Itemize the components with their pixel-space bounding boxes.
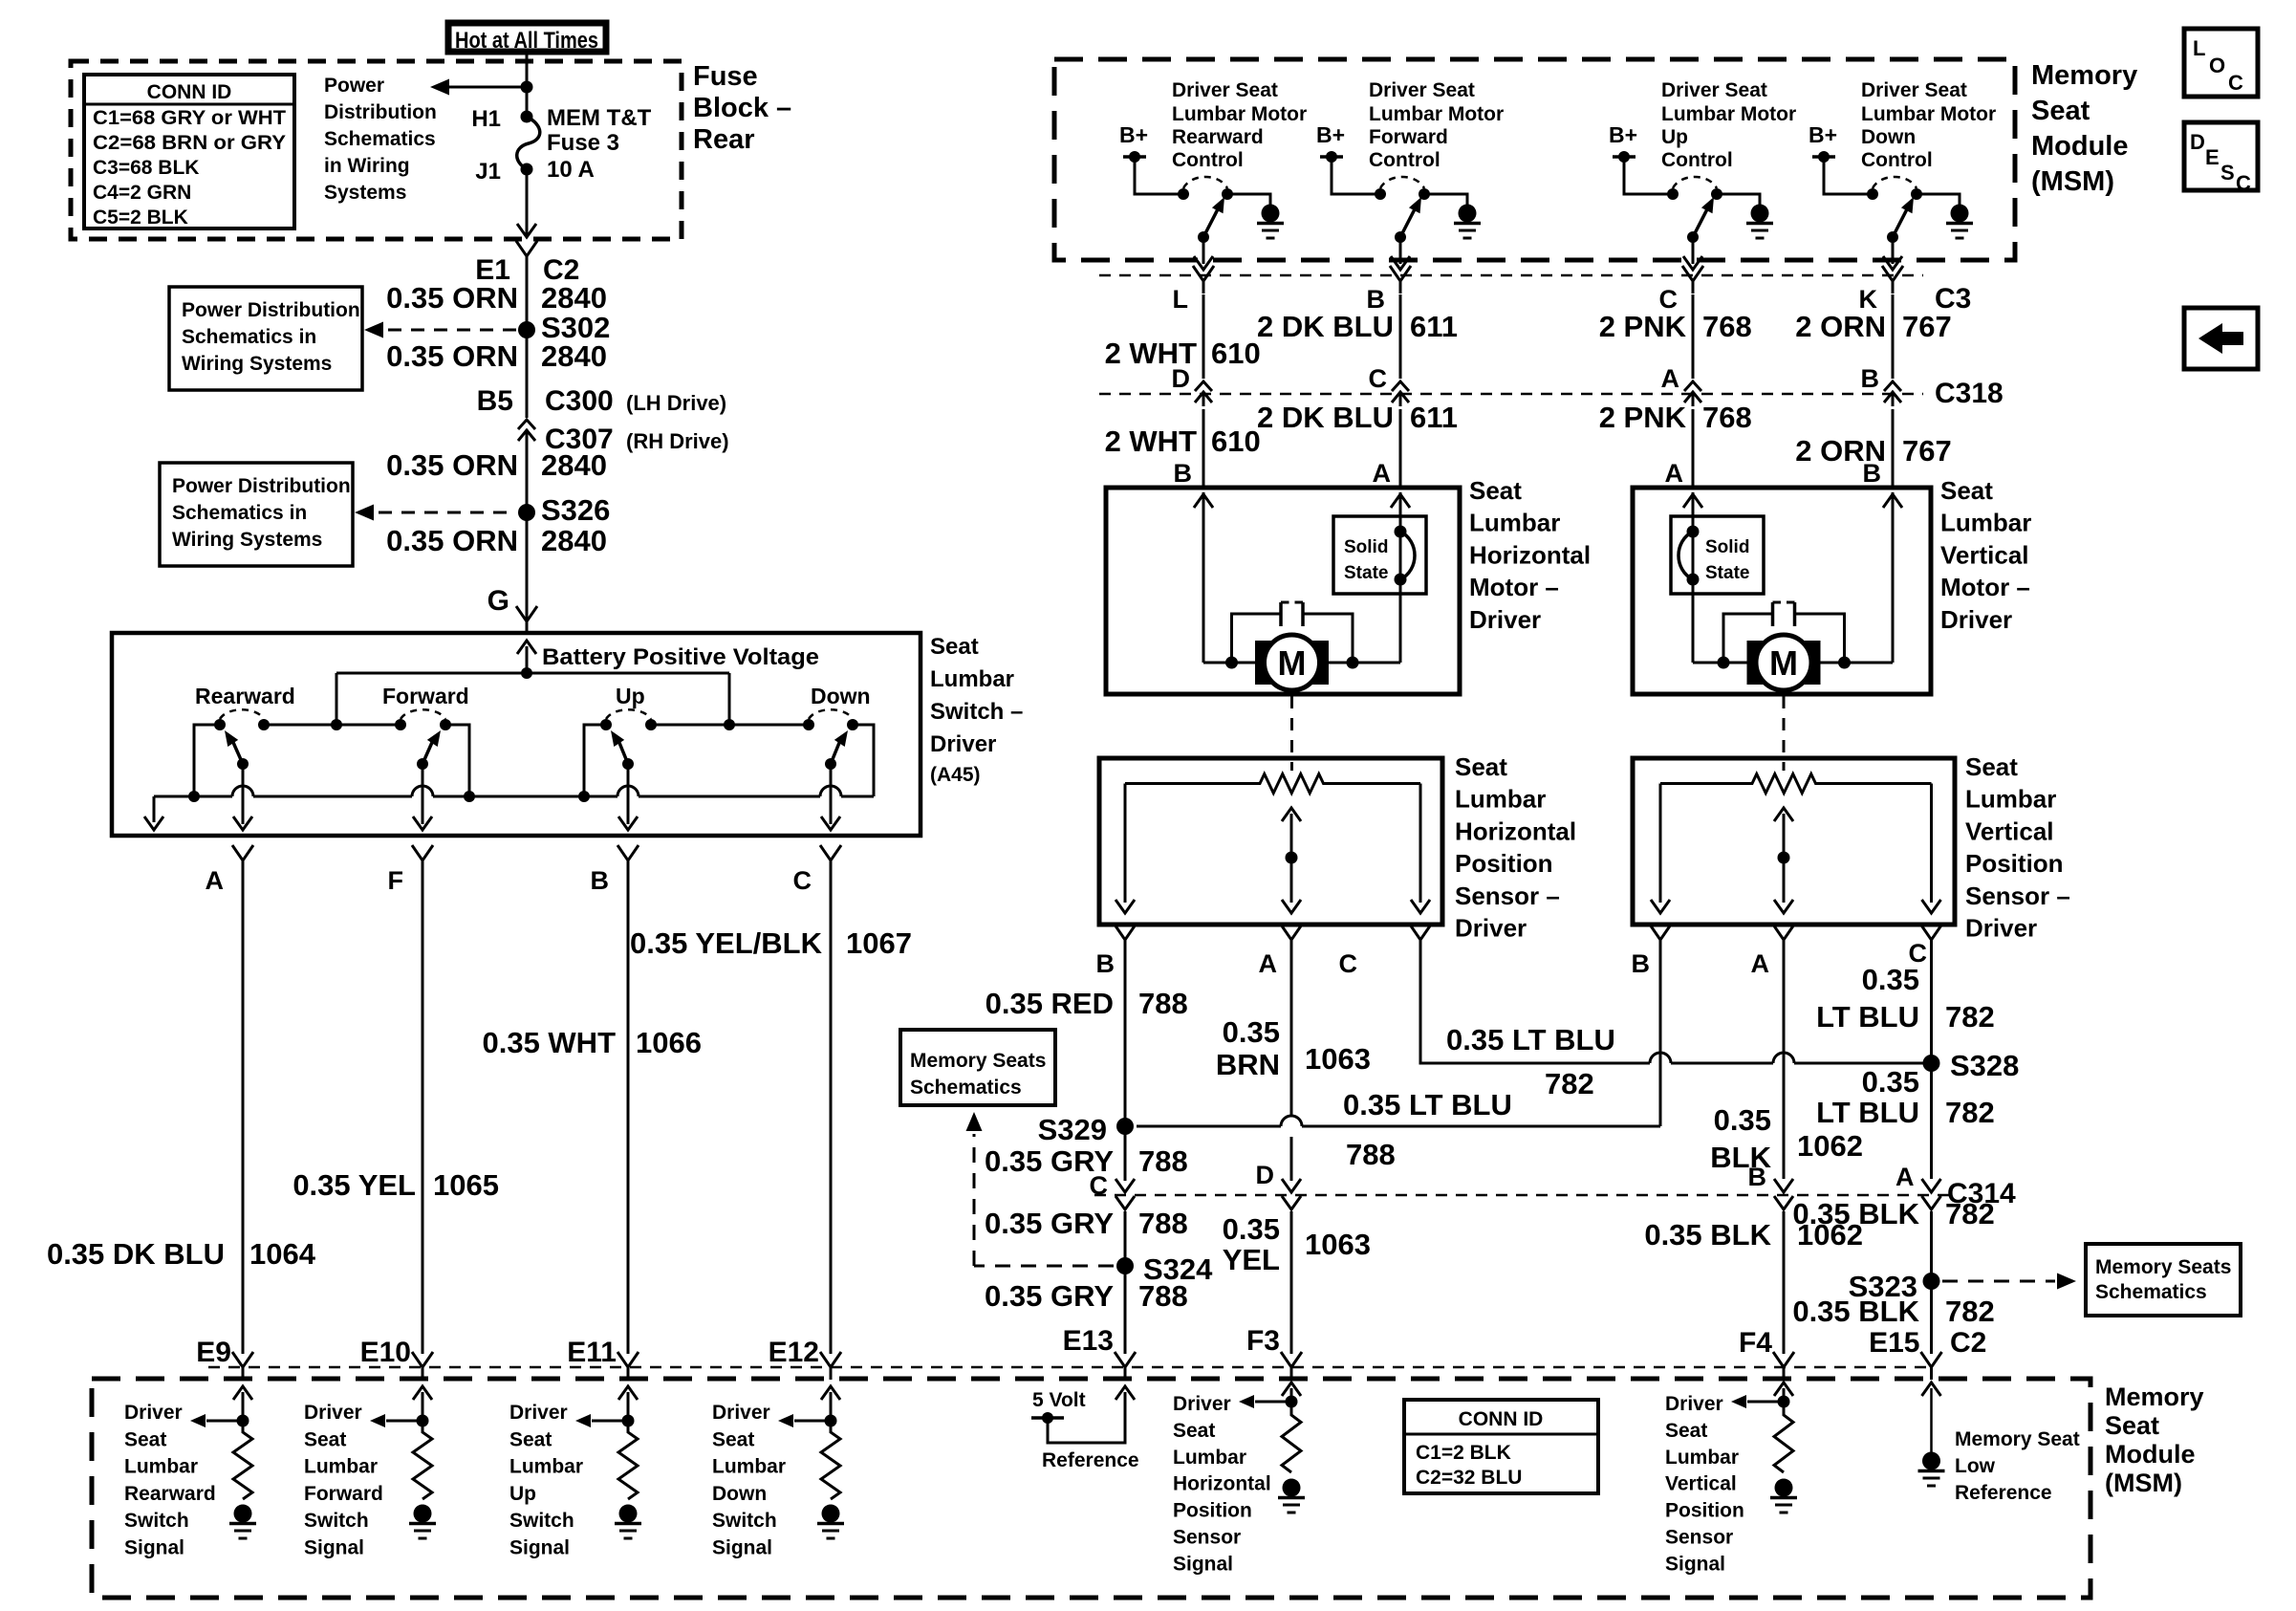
wire 0.35 BRN 1063 (horizontal sensor A) [1290, 952, 1293, 1116]
wire from Hot at All Times into fuse block [526, 54, 529, 117]
wire 0.35 LT BLU 782 (horizontal sensor C to S328) [1420, 952, 1650, 1063]
solid state switch [1671, 516, 1764, 594]
ground [1951, 205, 1969, 223]
wire 2 DK BLU 611 lower [1399, 409, 1402, 488]
svg-text:Reference: Reference [1042, 1449, 1139, 1471]
svg-text:Switch –: Switch – [930, 699, 1023, 725]
svg-text:Reference: Reference [1955, 1482, 2052, 1504]
svg-text:Solid: Solid [1705, 537, 1749, 557]
wire Forward right contact to bus [445, 725, 469, 796]
svg-text:D: D [1172, 364, 1191, 393]
svg-text:A: A [1661, 364, 1680, 393]
switch output connectors A F B C [232, 845, 253, 873]
Hot at All Times label box [448, 23, 606, 52]
svg-text:Lumbar Motor: Lumbar Motor [1661, 103, 1796, 125]
fuse F3 MEM T&T 10A [521, 111, 533, 123]
svg-text:A: A [1751, 949, 1770, 978]
svg-text:Position: Position [1965, 849, 2064, 878]
svg-text:(MSM): (MSM) [2105, 1469, 2182, 1497]
svg-text:C5=2 BLK: C5=2 BLK [93, 207, 188, 229]
svg-text:Seat: Seat [1469, 476, 1522, 505]
svg-text:Driver: Driver [1455, 914, 1527, 943]
svg-text:A: A [1259, 949, 1278, 978]
motor M [1255, 641, 1271, 685]
pot end wire right [1930, 784, 1933, 903]
pin wire left [1202, 492, 1205, 663]
svg-text:Lumbar: Lumbar [124, 1456, 198, 1478]
svg-text:Systems: Systems [324, 182, 406, 204]
connector C314 line [1094, 1194, 1950, 1197]
relay wiper [1395, 231, 1406, 243]
solid state switch [1333, 516, 1426, 594]
svg-text:State: State [1705, 563, 1749, 583]
wire 0.35 BLK 1062 (C314 to F4) [1783, 1211, 1786, 1354]
wire B+ to switch contact [1624, 157, 1673, 194]
svg-text:0.35 RED: 0.35 RED [986, 987, 1114, 1020]
svg-text:Seat: Seat [930, 634, 979, 660]
dashed arrow to power distribution schematics [388, 329, 516, 332]
svg-text:Hot at All Times: Hot at All Times [455, 28, 598, 54]
svg-text:Motor –: Motor – [1469, 573, 1559, 601]
svg-text:Horizontal: Horizontal [1469, 540, 1591, 569]
svg-text:Driver: Driver [124, 1402, 183, 1424]
svg-text:Control: Control [1172, 149, 1244, 171]
svg-text:LT BLU: LT BLU [1816, 1096, 1919, 1129]
connector C314 pin D [1282, 1179, 1301, 1209]
svg-text:0.35: 0.35 [1862, 1065, 1919, 1099]
svg-text:Switch: Switch [304, 1510, 369, 1532]
pin wire right [1892, 492, 1895, 663]
svg-text:Driver: Driver [1965, 914, 2037, 943]
connector C3 pin C [1682, 266, 1703, 294]
dashed link S324 to Memory Seats Schematics [974, 1265, 1114, 1268]
svg-text:Fuse: Fuse [693, 61, 758, 92]
svg-text:Down: Down [1861, 126, 1916, 148]
wire B+ to switch contact [1824, 157, 1873, 194]
connector C318 pin A [1684, 381, 1701, 406]
svg-text:B: B [1863, 459, 1882, 488]
svg-text:C2: C2 [1950, 1327, 1986, 1359]
Memory Seats Schematics box left [900, 1030, 1055, 1105]
sensor signal input with pull resistor [1783, 1388, 1786, 1402]
svg-text:C300: C300 [545, 385, 614, 417]
svg-text:788: 788 [1138, 1144, 1188, 1178]
svg-text:0.35 BLK: 0.35 BLK [1644, 1218, 1771, 1252]
connector C314 pin C [1116, 1179, 1135, 1209]
svg-text:0.35 BLK: 0.35 BLK [1792, 1197, 1919, 1230]
svg-text:Module: Module [2105, 1440, 2196, 1469]
svg-text:C318: C318 [1935, 378, 2004, 409]
svg-text:O: O [2209, 54, 2225, 77]
svg-text:YEL: YEL [1223, 1243, 1280, 1276]
svg-text:2 DK BLU: 2 DK BLU [1257, 401, 1394, 434]
ground [1262, 205, 1280, 223]
svg-text:788: 788 [1138, 1279, 1188, 1313]
svg-text:M: M [1769, 643, 1798, 683]
contact wire Up-Down [651, 724, 809, 727]
svg-text:788: 788 [1346, 1138, 1396, 1171]
battery bus [336, 672, 729, 675]
svg-text:Seat: Seat [1940, 476, 1993, 505]
svg-text:Sensor: Sensor [1173, 1527, 1241, 1549]
Seat Lumbar Switch - Driver (A45) box [112, 633, 921, 836]
Power Distribution Schematics box 1 [169, 287, 362, 390]
dashed arrow to power distribution schematics 2 [379, 512, 516, 514]
motor supply wires [1693, 662, 1747, 664]
svg-text:2840: 2840 [541, 339, 607, 373]
svg-text:E11: E11 [567, 1337, 617, 1368]
svg-text:Motor –: Motor – [1940, 573, 2030, 601]
svg-text:Forward: Forward [304, 1483, 383, 1505]
wire Rearward left contact to bus [194, 725, 220, 796]
pin wire right [1399, 492, 1402, 663]
svg-text:1064: 1064 [249, 1237, 316, 1271]
svg-text:Seat: Seat [304, 1428, 346, 1450]
svg-text:0.35 ORN: 0.35 ORN [386, 339, 518, 373]
svg-text:M: M [1278, 643, 1307, 683]
seat lumbar vertical motor - driver box [1633, 488, 1931, 694]
splice S326 [518, 504, 535, 521]
svg-text:Lumbar: Lumbar [509, 1456, 583, 1478]
connector C3 pin L [1193, 266, 1214, 294]
wire B+ to switch contact [1332, 157, 1380, 194]
svg-text:(A45): (A45) [930, 764, 981, 786]
svg-text:E15: E15 [1869, 1327, 1919, 1359]
wire wiper to MSM pin [1399, 237, 1402, 264]
wire 2 WHT 610 lower [1202, 409, 1205, 488]
svg-text:788: 788 [1138, 1207, 1188, 1240]
svg-text:Signal: Signal [124, 1537, 184, 1559]
motor supply wires [1203, 662, 1255, 664]
svg-text:Fuse 3: Fuse 3 [547, 130, 619, 156]
back arrow icon box [2184, 308, 2258, 369]
svg-text:1066: 1066 [636, 1026, 702, 1059]
svg-text:Driver: Driver [304, 1402, 362, 1424]
svg-text:MEM T&T: MEM T&T [547, 105, 652, 131]
svg-text:Position: Position [1173, 1500, 1252, 1522]
svg-text:S328: S328 [1950, 1049, 2019, 1082]
svg-text:B: B [1748, 1163, 1767, 1191]
svg-text:A: A [1373, 459, 1392, 488]
svg-text:768: 768 [1702, 401, 1752, 434]
svg-text:767: 767 [1902, 310, 1952, 343]
DESC icon box [2184, 122, 2258, 190]
svg-text:Down: Down [811, 684, 871, 708]
svg-text:Lumbar: Lumbar [1455, 785, 1546, 814]
connector C3 pin K [1882, 266, 1903, 294]
wire 2 ORN 767 upper [1892, 294, 1895, 379]
svg-text:Control: Control [1661, 149, 1733, 171]
svg-text:C: C [1369, 364, 1388, 393]
input wire with pull resistor [830, 1392, 833, 1421]
svg-text:Signal: Signal [1173, 1553, 1233, 1575]
svg-text:Signal: Signal [509, 1537, 570, 1559]
seat lumbar vertical position sensor - driver box [1633, 758, 1955, 925]
relay wiper [1198, 231, 1209, 243]
wire Up left contact to bus [584, 725, 606, 796]
switch Forward output wire [422, 764, 424, 824]
switch Rearward output wire [242, 764, 245, 824]
svg-text:Wiring Systems: Wiring Systems [172, 529, 322, 551]
wire 2 WHT 610 upper [1202, 294, 1205, 379]
svg-text:C: C [2236, 171, 2251, 195]
svg-text:782: 782 [1945, 1000, 1995, 1034]
splice S328 [1923, 1055, 1940, 1072]
svg-text:Lumbar: Lumbar [930, 666, 1014, 692]
svg-text:Up: Up [509, 1483, 536, 1505]
ground [822, 1505, 840, 1523]
horizontal sensor pin connectors B A C [1115, 925, 1136, 952]
svg-text:0.35 ORN: 0.35 ORN [386, 281, 518, 315]
pull resistor [413, 1421, 432, 1499]
suppression capacitor loop [1232, 614, 1282, 663]
ground [234, 1505, 252, 1523]
svg-text:Signal: Signal [1665, 1553, 1725, 1575]
wire B to E11 0.35 WHT 1066 [627, 872, 630, 1354]
svg-text:Driver: Driver [1173, 1393, 1231, 1415]
svg-text:C1=68 GRY or WHT: C1=68 GRY or WHT [93, 107, 286, 129]
svg-text:1065: 1065 [433, 1168, 499, 1202]
svg-text:H1: H1 [471, 106, 501, 132]
svg-text:Seat: Seat [1965, 752, 2018, 781]
svg-text:Lumbar: Lumbar [1665, 1447, 1739, 1469]
wire contact to ground [1717, 194, 1760, 205]
svg-text:Horizontal: Horizontal [1455, 816, 1576, 845]
pot wiper [1290, 814, 1293, 903]
connector C314 pin B [1774, 1179, 1793, 1209]
svg-text:C: C [1090, 1171, 1109, 1200]
CONN ID table (MSM) [1404, 1400, 1598, 1493]
wire wiper to MSM pin [1202, 237, 1205, 264]
B+ terminal [1123, 155, 1146, 159]
svg-text:782: 782 [1945, 1096, 1995, 1129]
svg-text:Schematics in: Schematics in [172, 502, 307, 524]
svg-text:0.35 WHT: 0.35 WHT [482, 1026, 616, 1059]
wire 2 ORN 767 lower [1892, 409, 1895, 488]
svg-text:Horizontal: Horizontal [1173, 1473, 1271, 1495]
svg-text:Power: Power [324, 75, 384, 97]
svg-text:J1: J1 [475, 159, 501, 185]
svg-text:Sensor: Sensor [1665, 1527, 1733, 1549]
B+ terminal [1320, 155, 1343, 159]
svg-text:0.35 ORN: 0.35 ORN [386, 524, 518, 557]
svg-text:1063: 1063 [1305, 1042, 1371, 1076]
svg-text:A: A [206, 866, 225, 895]
svg-text:Schematics in: Schematics in [182, 326, 316, 348]
svg-text:Driver Seat: Driver Seat [1369, 79, 1475, 101]
arrow to comparator [386, 1420, 422, 1423]
svg-text:Driver: Driver [509, 1402, 568, 1424]
svg-text:2840: 2840 [541, 524, 607, 557]
svg-text:C: C [793, 866, 812, 895]
svg-text:0.35 LT BLU: 0.35 LT BLU [1446, 1023, 1615, 1056]
svg-text:Driver: Driver [712, 1402, 770, 1424]
relay contacts [1667, 188, 1679, 200]
svg-text:0.35 YEL: 0.35 YEL [292, 1168, 416, 1202]
memory seat low reference [1930, 1388, 1933, 1452]
svg-text:Position: Position [1665, 1500, 1744, 1522]
svg-text:782: 782 [1945, 1197, 1995, 1230]
svg-text:B+: B+ [1809, 122, 1837, 147]
wire 0.35 BLK 1062 (vertical sensor A to C314) [1783, 952, 1786, 1179]
relay contacts [1375, 188, 1386, 200]
svg-text:Lumbar: Lumbar [1940, 509, 2031, 537]
svg-text:0.35 GRY: 0.35 GRY [985, 1279, 1114, 1313]
MSM connector C3 line [1099, 274, 1923, 277]
svg-text:Driver Seat: Driver Seat [1172, 79, 1278, 101]
svg-text:Memory: Memory [2105, 1382, 2204, 1411]
svg-text:L: L [2193, 36, 2205, 60]
Fuse Block - Rear dashed box [71, 61, 682, 239]
pot wiper [1783, 814, 1786, 903]
wire 0.35 BLK 782 (S323 to E15) [1930, 1281, 1933, 1354]
svg-text:Driver: Driver [1940, 605, 2012, 634]
sensor signal input with pull resistor [1290, 1388, 1293, 1402]
svg-text:B+: B+ [1316, 122, 1345, 147]
svg-text:0.35 GRY: 0.35 GRY [985, 1207, 1114, 1240]
svg-text:Rearward: Rearward [1172, 126, 1264, 148]
svg-text:2840: 2840 [541, 281, 607, 315]
splice S323 [1923, 1273, 1940, 1290]
svg-text:Rearward: Rearward [195, 684, 295, 708]
wire wiper to MSM pin [1692, 237, 1695, 264]
svg-text:610: 610 [1211, 337, 1261, 370]
svg-text:Lumbar Motor: Lumbar Motor [1861, 103, 1996, 125]
suppression capacitor loop [1723, 614, 1773, 663]
svg-text:Block –: Block – [693, 93, 791, 123]
switch Down output wire [830, 764, 833, 824]
svg-text:C: C [2228, 71, 2243, 95]
svg-text:Signal: Signal [304, 1537, 364, 1559]
input wire with pull resistor [422, 1392, 424, 1421]
svg-text:Memory Seats: Memory Seats [2095, 1256, 2231, 1278]
wire A to E9 0.35 DK BLU 1064 [242, 872, 245, 1354]
relay contacts [1867, 188, 1878, 200]
wire 0.35 YEL 1063 (C314 to F3) [1290, 1211, 1293, 1354]
vertical sensor pin connectors B A C [1650, 925, 1671, 952]
wire 0.35 ORN 2840 [526, 269, 529, 418]
svg-text:C3=68 BLK: C3=68 BLK [93, 157, 199, 179]
Battery Positive Voltage feed [526, 646, 529, 673]
wire Down right contact to bus [853, 725, 874, 796]
svg-text:Switch: Switch [124, 1510, 189, 1532]
CONN ID table (fuse block) [84, 75, 294, 229]
Memory Seats Schematics box right [2086, 1244, 2241, 1316]
svg-text:CONN ID: CONN ID [147, 81, 232, 103]
svg-text:Signal: Signal [712, 1537, 772, 1559]
svg-text:Seat: Seat [2031, 96, 2090, 126]
input wire with pull resistor [627, 1392, 630, 1421]
wire 0.35 RED 788 (horizontal sensor B) [1124, 952, 1127, 1126]
svg-text:2 WHT: 2 WHT [1105, 425, 1198, 458]
svg-text:E9: E9 [196, 1337, 231, 1368]
svg-text:E: E [2205, 145, 2220, 169]
svg-text:E12: E12 [769, 1337, 819, 1368]
svg-text:Power Distribution: Power Distribution [172, 475, 351, 497]
svg-text:10 A: 10 A [547, 157, 595, 183]
svg-text:Lumbar: Lumbar [1173, 1447, 1246, 1469]
pin wire left [1692, 492, 1695, 663]
wire 2 DK BLU 611 upper [1399, 294, 1402, 379]
svg-text:Battery Positive Voltage: Battery Positive Voltage [542, 644, 819, 670]
wire B+ to switch contact [1135, 157, 1183, 194]
svg-text:Driver: Driver [1665, 1393, 1723, 1415]
wire fuse to fuse block edge [526, 169, 529, 235]
svg-text:L: L [1173, 285, 1189, 314]
svg-text:in Wiring: in Wiring [324, 155, 410, 177]
pull resistor [821, 1421, 840, 1499]
wire contact to ground [1424, 194, 1467, 205]
svg-text:C4=2 GRN: C4=2 GRN [93, 182, 191, 204]
svg-text:Lumbar: Lumbar [1965, 785, 2056, 814]
pot end wire right [1419, 784, 1422, 903]
svg-text:Seat: Seat [124, 1428, 166, 1450]
svg-text:5 Volt: 5 Volt [1032, 1389, 1086, 1411]
bus drop right [728, 673, 731, 725]
svg-text:1063: 1063 [1305, 1228, 1371, 1261]
svg-text:C2=32 BLU: C2=32 BLU [1416, 1467, 1522, 1489]
dashed link S323 to Memory Seats Schematics [1942, 1280, 2055, 1283]
svg-text:D: D [2190, 130, 2205, 154]
svg-text:Driver: Driver [930, 731, 996, 757]
svg-text:B+: B+ [1609, 122, 1637, 147]
relay wiper [1687, 231, 1699, 243]
wire contact to ground [1917, 194, 1960, 205]
wire 0.35 LT BLU 782 above S328 [1930, 952, 1933, 1063]
svg-text:B: B [1174, 459, 1193, 488]
svg-text:C: C [1339, 949, 1358, 978]
svg-text:1067: 1067 [846, 926, 912, 960]
svg-text:(RH Drive): (RH Drive) [626, 429, 729, 453]
svg-text:0.35 LT BLU: 0.35 LT BLU [1343, 1088, 1512, 1121]
splice S324 [1116, 1257, 1134, 1274]
dashed mechanical link motor to sensor (horizontal) [1290, 696, 1293, 771]
svg-text:Vertical: Vertical [1965, 816, 2054, 845]
motor M [1747, 641, 1764, 685]
svg-text:788: 788 [1138, 987, 1188, 1020]
wire contact to ground [1227, 194, 1270, 205]
pot end wire left [1659, 784, 1662, 903]
ground [414, 1505, 432, 1523]
svg-text:0.35: 0.35 [1714, 1103, 1771, 1137]
svg-text:782: 782 [1545, 1067, 1594, 1100]
svg-text:Lumbar: Lumbar [1469, 509, 1560, 537]
wire F to E10 0.35 YEL 1065 [422, 872, 424, 1354]
arrow to comparator [794, 1420, 831, 1423]
svg-text:Wiring Systems: Wiring Systems [182, 353, 332, 375]
svg-text:Seat: Seat [1665, 1420, 1707, 1442]
svg-text:0.35 YEL/BLK: 0.35 YEL/BLK [630, 926, 823, 960]
svg-text:E10: E10 [360, 1337, 411, 1368]
svg-text:Vertical: Vertical [1665, 1473, 1737, 1495]
bottom connector pins [232, 1352, 253, 1380]
svg-text:Driver Seat: Driver Seat [1861, 79, 1967, 101]
dashed mechanical link motor to sensor (vertical) [1783, 696, 1786, 771]
relay contacts [1178, 188, 1189, 200]
wire 0.35 GRY 788 (S329 to C314) [1124, 1126, 1127, 1181]
svg-text:Forward: Forward [382, 684, 469, 708]
switch Up output wire [627, 764, 630, 824]
svg-text:Seat: Seat [1455, 752, 1507, 781]
svg-text:611: 611 [1410, 401, 1458, 434]
svg-text:S: S [2220, 161, 2235, 185]
B+ terminal [1812, 155, 1835, 159]
svg-text:LT BLU: LT BLU [1816, 1000, 1919, 1034]
svg-text:Switch: Switch [509, 1510, 574, 1532]
svg-text:2 ORN: 2 ORN [1795, 310, 1886, 343]
svg-text:Solid: Solid [1344, 537, 1388, 557]
bus drop left [336, 673, 338, 725]
